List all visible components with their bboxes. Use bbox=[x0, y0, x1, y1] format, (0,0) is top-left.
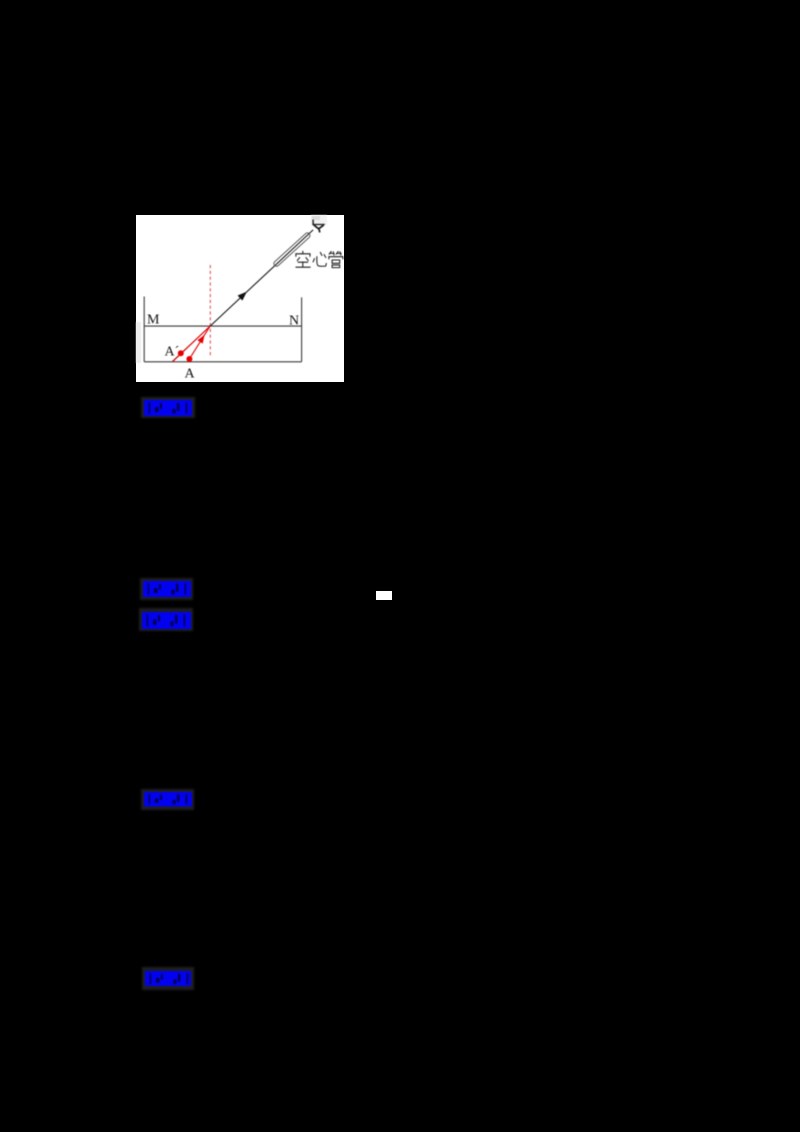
svg-text:A: A bbox=[185, 367, 196, 382]
svg-text:N: N bbox=[289, 314, 299, 329]
svg-text:A´: A´ bbox=[165, 345, 180, 360]
svg-text:M: M bbox=[147, 313, 160, 328]
